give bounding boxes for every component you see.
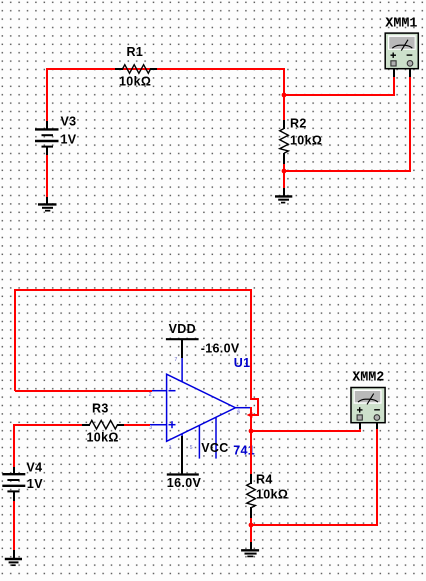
svg-text:7: 7 <box>175 357 178 363</box>
op-amp U1 741 <box>149 356 255 459</box>
svg-text:VCC: VCC <box>201 441 228 455</box>
wire V4 bottom <box>13 501 15 551</box>
feedback wire loop (output to pin2) <box>15 290 258 415</box>
svg-text:R1: R1 <box>127 45 144 59</box>
node junction R4/XMM2- <box>249 523 254 528</box>
svg-text:1V: 1V <box>27 477 43 491</box>
node junction output/XMM2+ <box>249 429 254 434</box>
svg-text:XMM1: XMM1 <box>385 17 417 32</box>
resistor R4 <box>247 473 289 519</box>
multimeter XMM1 <box>385 17 418 69</box>
multimeter XMM2 <box>351 371 385 423</box>
wire V3 bottom <box>46 155 48 197</box>
battery V3 <box>35 115 77 156</box>
wire arrowhead at output junction <box>247 412 253 417</box>
wire XMM1 - to junction <box>284 69 411 172</box>
svg-text:2: 2 <box>149 392 152 398</box>
wire R4 bottom <box>250 518 252 543</box>
svg-text:V3: V3 <box>61 115 77 129</box>
svg-text:6: 6 <box>237 409 240 415</box>
VDD power rail <box>166 322 240 358</box>
wire op-amp output down <box>250 407 252 475</box>
svg-text:V4: V4 <box>26 461 42 475</box>
svg-text:R4: R4 <box>256 473 273 487</box>
svg-text:R3: R3 <box>92 402 109 416</box>
svg-text:10kΩ: 10kΩ <box>290 134 322 148</box>
svg-text:XMM2: XMM2 <box>352 371 384 386</box>
ground below V4 <box>5 550 22 565</box>
wire R3 to pin3 <box>124 424 150 426</box>
wire R1 corner down to R2 <box>283 68 285 121</box>
node junction R1/R2/XMM1+ <box>282 93 287 98</box>
svg-text:1V: 1V <box>61 133 77 147</box>
ground below V3 <box>38 197 57 211</box>
svg-text:VDD: VDD <box>169 322 196 336</box>
wire XMM1 + to junction <box>284 69 395 96</box>
wire XMM2 - to R4 junction <box>251 423 378 526</box>
wire feedback to op-amp pin 2 <box>15 390 152 392</box>
svg-text:-16.0V: -16.0V <box>201 341 240 355</box>
svg-text:U1: U1 <box>234 356 251 370</box>
resistor R3 <box>82 402 124 445</box>
VCC power rail <box>167 436 229 490</box>
svg-text:10kΩ: 10kΩ <box>256 488 288 502</box>
svg-text:5: 5 <box>190 445 193 451</box>
ground below R4 <box>241 542 259 556</box>
svg-text:10kΩ: 10kΩ <box>87 431 119 445</box>
wire R2 bottom <box>283 164 285 189</box>
svg-text:R2: R2 <box>290 117 307 131</box>
battery V4 <box>2 461 43 502</box>
ground below R2 <box>275 188 292 203</box>
wire V3 top / R1 net <box>46 69 285 121</box>
resistor R2 <box>280 117 323 165</box>
node junction R2/XMM1- <box>282 169 287 174</box>
svg-text:1: 1 <box>169 445 172 451</box>
wire V4 to R3 / pin3 net <box>14 424 83 467</box>
resistor R1 <box>115 45 157 89</box>
svg-text:16.0V: 16.0V <box>167 476 202 490</box>
wire XMM2 + to output junction <box>251 423 361 432</box>
svg-text:10kΩ: 10kΩ <box>119 75 151 89</box>
